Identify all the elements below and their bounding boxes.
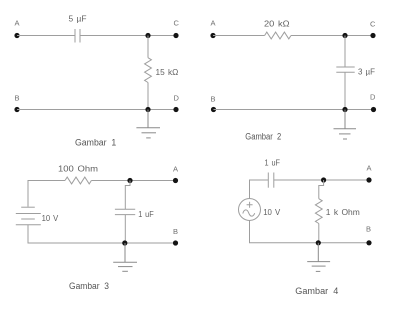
wire resistor R2 to node C (291, 35, 373, 37)
svg-text:Gambar 1: Gambar 1 (75, 137, 116, 147)
resistor R2 zigzag (265, 32, 291, 39)
terminal dot C (Gambar 2) (370, 33, 375, 38)
svg-text:D: D (174, 94, 180, 103)
wire junction down to capacitor C2 (344, 36, 346, 68)
svg-text:B: B (173, 227, 178, 236)
wire A to capacitor C1 (17, 35, 75, 37)
svg-text:B: B (15, 94, 20, 103)
wire jog junction to capacitor C3 (125, 181, 130, 210)
svg-text:C: C (370, 20, 376, 29)
battery V1 plates (16, 207, 41, 225)
terminal dot D (Gambar 1) (173, 107, 178, 112)
junction dot top (Gambar 2) (342, 33, 347, 38)
svg-text:20 kΩ: 20 kΩ (264, 18, 290, 28)
svg-text:10 V: 10 V (263, 207, 280, 217)
wire bottom rail B to D (17, 109, 176, 111)
svg-text:Gambar 4: Gambar 4 (295, 286, 338, 296)
wire capacitor C3 to bottom rail (124, 215, 126, 243)
svg-text:A: A (211, 19, 216, 28)
resistor R1 zigzag (145, 58, 152, 83)
svg-text:Gambar 2: Gambar 2 (245, 131, 281, 141)
wire AC source top corner to capacitor C4 (250, 180, 269, 199)
terminal dot B (Gambar 1) (14, 107, 19, 112)
terminal dot C (Gambar 1) (173, 33, 178, 38)
resistor R3 zigzag (65, 177, 91, 184)
svg-text:1 k Ohm: 1 k Ohm (326, 207, 360, 217)
ground (Gambar 1) (136, 110, 160, 138)
junction dot top (Gambar 4) (321, 177, 326, 182)
junction dot bottom (Gambar 2) (342, 107, 347, 112)
ground (Gambar 2) (334, 110, 357, 140)
wire resistor R4 to bottom rail (318, 224, 320, 243)
ac source sine wave (243, 210, 255, 216)
junction dot bottom (Gambar 1) (145, 107, 150, 112)
junction dot top (Gambar 3) (127, 178, 132, 183)
svg-text:3 µF: 3 µF (358, 67, 375, 77)
wire resistor R1 to bottom rail (147, 83, 149, 110)
junction dot bottom (Gambar 4) (316, 240, 321, 245)
ac source plus sign (247, 202, 253, 208)
ground (Gambar 3) (113, 243, 137, 271)
wire junction down to resistor R1 (147, 36, 149, 58)
resistor R4 zigzag (315, 199, 322, 224)
terminal dot B (Gambar 2) (211, 107, 216, 112)
capacitor C1 plates (74, 29, 76, 43)
svg-text:Gambar 3: Gambar 3 (69, 281, 109, 291)
terminal dot D (Gambar 2) (371, 107, 376, 112)
ac source V2 circle (239, 199, 261, 221)
wire capacitor C2 to bottom rail (344, 72, 346, 109)
svg-text:100 Ohm: 100 Ohm (58, 164, 98, 174)
wire capacitor C4 to node A (Gambar 4) (274, 179, 369, 181)
terminal dot B (Gambar 3) (173, 240, 178, 245)
svg-text:B: B (211, 95, 216, 104)
terminal dot A (Gambar 4) (366, 177, 371, 182)
junction dot top (Gambar 1) (145, 33, 150, 38)
svg-text:5 µF: 5 µF (69, 13, 87, 23)
svg-text:1 uF: 1 uF (265, 158, 281, 168)
svg-text:1 uF: 1 uF (138, 209, 154, 219)
wire resistor R3 to node A (Gambar 3) (91, 180, 175, 182)
terminal dot A (Gambar 1) (14, 33, 19, 38)
svg-text:A: A (15, 19, 20, 28)
capacitor C4 plates (267, 173, 269, 188)
svg-text:15 kΩ: 15 kΩ (156, 67, 179, 77)
wire A to resistor R2 (213, 35, 265, 37)
wire jog junction to resistor R4 (319, 180, 324, 199)
terminal dot B (Gambar 4) (366, 240, 371, 245)
svg-text:B: B (366, 225, 371, 234)
junction dot bottom (Gambar 3) (122, 240, 127, 245)
svg-text:10 V: 10 V (42, 213, 59, 223)
wire capacitor C1 to node C (80, 35, 176, 37)
wire bottom rail B to D (Gambar 2) (214, 109, 374, 111)
ground (Gambar 4) (307, 243, 330, 272)
svg-text:A: A (367, 164, 372, 173)
wire AC source bottom to node B rail (250, 221, 370, 243)
wire battery top corner to resistor R3 (28, 181, 65, 207)
capacitor C3 plates (115, 208, 135, 210)
svg-text:A: A (173, 165, 178, 174)
capacitor C2 plates (336, 66, 354, 68)
svg-text:D: D (370, 93, 376, 102)
terminal dot A (Gambar 3) (173, 178, 178, 183)
terminal dot A (Gambar 2) (210, 33, 215, 38)
svg-text:C: C (174, 19, 180, 28)
wire battery bottom to node B rail (28, 225, 176, 243)
